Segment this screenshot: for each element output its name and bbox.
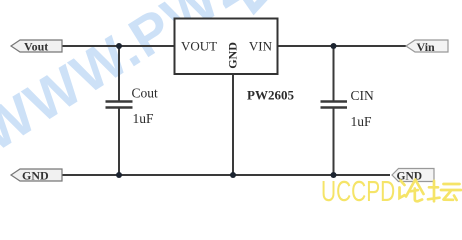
svg-text:1uF: 1uF <box>351 114 373 129</box>
svg-text:Vin: Vin <box>417 40 436 54</box>
svg-text:UCCPD: UCCPD <box>321 176 395 205</box>
svg-text:Cout: Cout <box>132 86 159 101</box>
svg-text:GND: GND <box>226 42 240 69</box>
svg-text:1uF: 1uF <box>133 111 155 126</box>
svg-text:PW2605: PW2605 <box>247 88 294 103</box>
svg-text:GND: GND <box>22 169 49 183</box>
svg-text:VOUT: VOUT <box>181 39 217 54</box>
svg-text:CIN: CIN <box>351 88 375 103</box>
svg-text:VIN: VIN <box>249 39 273 54</box>
svg-text:Vout: Vout <box>24 40 48 54</box>
